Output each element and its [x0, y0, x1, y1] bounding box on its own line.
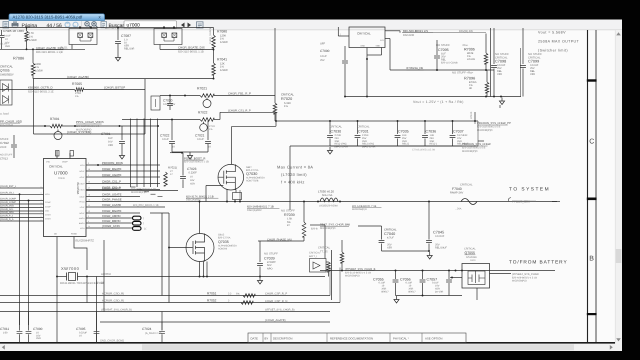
svg-text:ACIN: ACIN	[80, 227, 85, 230]
svg-text:18: 18	[88, 168, 90, 171]
svg-text:BGAT: BGAT	[79, 170, 85, 173]
svg-text:C7023: C7023	[187, 167, 197, 171]
svg-text:14: 14	[88, 225, 90, 228]
svg-text:C7099: C7099	[528, 60, 539, 64]
svg-text:0.1UF: 0.1UF	[320, 55, 327, 58]
svg-text:C7098: C7098	[495, 60, 506, 64]
svg-text:AMON: AMON	[79, 217, 85, 220]
svg-text:UFF: UFF	[320, 43, 326, 46]
svg-text:C7001: C7001	[101, 132, 111, 136]
svg-text:F7040: F7040	[452, 187, 462, 191]
svg-text:C7095: C7095	[438, 48, 449, 52]
svg-text:1: 1	[41, 185, 42, 188]
svg-text:(CHGR_P_2: (CHGR_P_2	[0, 215, 14, 218]
svg-text:820-3115-B0021 1 1B: 820-3115-B0021 1 1B	[184, 161, 209, 164]
svg-text:CRITICAL: CRITICAL	[460, 184, 473, 187]
svg-text:MICROB(P)D: MICROB(P)D	[462, 150, 478, 153]
svg-text:2508A MAX OUTPUT: 2508A MAX OUTPUT	[538, 40, 580, 44]
svg-text:C7011: C7011	[0, 327, 9, 331]
svg-text:(CHGR_D_A: (CHGR_D_A	[0, 218, 14, 221]
svg-text:50A 2.5A: 50A 2.5A	[322, 194, 333, 197]
svg-text:ISL6259IHRTZ: ISL6259IHRTZ	[75, 239, 94, 243]
svg-text:C7039: C7039	[264, 256, 275, 260]
svg-text:25V: 25V	[320, 59, 325, 62]
svg-text:Q7030: Q7030	[246, 172, 257, 176]
svg-text:Página: Página	[22, 23, 38, 29]
svg-text:TO/FROM BATTERY: TO/FROM BATTERY	[509, 260, 568, 266]
svg-text:a. load: a. load	[0, 112, 9, 116]
svg-text:C7012: C7012	[0, 141, 9, 145]
svg-text:A1278 820-3115 3115-B951-4059.: A1278 820-3115 3115-B951-4059.pdf	[13, 15, 84, 20]
svg-text:C7000: C7000	[33, 327, 43, 331]
svg-text:1: 1	[41, 205, 42, 208]
svg-text:1: 1	[41, 208, 42, 211]
svg-text:(CHGR_1B_L: (CHGR_1B_L	[0, 191, 15, 194]
svg-text:ACIN: ACIN	[45, 193, 50, 196]
svg-text:CHGR_CSP_R_P: CHGR_CSP_R_P	[265, 293, 287, 296]
svg-text:C7030: C7030	[331, 130, 342, 134]
svg-text:CHGR_BMON: CHGR_BMON	[102, 219, 121, 223]
svg-text:(CHGR_COMP: (CHGR_COMP	[0, 198, 16, 201]
svg-text:GND: GND	[361, 45, 366, 48]
svg-text:(CHGR_AGATE): (CHGR_AGATE)	[67, 75, 89, 79]
svg-text:15: 15	[88, 181, 90, 184]
svg-text:TT_25: TT_25	[320, 251, 328, 254]
svg-text:C7021: C7021	[195, 134, 205, 138]
svg-text:(CHGR_RST_L: (CHGR_RST_L	[0, 185, 17, 188]
svg-text:HCRGR_CSO_R): HCRGR_CSO_R)	[102, 300, 124, 303]
svg-text:C7090: C7090	[320, 49, 330, 53]
svg-text:C: C	[589, 139, 594, 146]
svg-text:C7040: C7040	[384, 232, 395, 236]
svg-text:R7051: R7051	[207, 292, 217, 296]
svg-text:17: 17	[88, 187, 90, 190]
svg-text:16: 16	[88, 194, 90, 197]
svg-text:B0017: B0017	[409, 290, 417, 293]
svg-text:Vout = 1.25V * (1 + Ra / Rb): Vout = 1.25V * (1 + Ra / Rb)	[413, 100, 464, 104]
svg-text:1 1.10: 1 1.10	[0, 43, 7, 46]
svg-text:820-115-CDNB: 820-115-CDNB	[441, 61, 458, 64]
svg-text:C7031: C7031	[358, 130, 369, 134]
svg-text:CHGR: CHGR	[45, 217, 51, 220]
svg-text:MICROB(P)D: MICROB(P)D	[131, 191, 147, 194]
svg-text:C7024: C7024	[142, 327, 152, 331]
svg-text:U7000: U7000	[54, 171, 68, 176]
svg-text:1%: 1%	[284, 105, 288, 108]
svg-text:820_PD2_B0021-1 1B: 820_PD2_B0021-1 1B	[133, 204, 159, 207]
svg-text:MICROB(P)D: MICROB(P)D	[320, 227, 336, 230]
svg-text:NO STUFF: NO STUFF	[0, 154, 13, 157]
svg-text:R7021: R7021	[197, 87, 207, 91]
svg-text:4: 4	[88, 220, 89, 223]
svg-text:1: 1	[41, 218, 42, 221]
svg-text:X5R: X5R	[530, 73, 535, 76]
svg-text:UGAT: UGAT	[79, 195, 85, 198]
svg-text:REL/10UF: REL/10UF	[435, 247, 447, 250]
svg-text:44 / 56: 44 / 56	[47, 23, 63, 29]
svg-text:12: 12	[88, 210, 90, 213]
svg-text:(A_RG10 2.2K: (A_RG10 2.2K	[145, 332, 162, 335]
svg-text:CHGR_UGATE: CHGR_UGATE	[102, 193, 122, 197]
svg-text:CRITICAL: CRITICAL	[318, 247, 331, 250]
svg-text:(CHGR_SCL: (CHGR_SCL	[0, 208, 14, 211]
svg-text:DESCRIPTION: DESCRIPTION	[273, 336, 292, 340]
svg-text:) (: ) (	[144, 228, 147, 231]
svg-text:1/16W: 1/16W	[220, 69, 228, 72]
svg-text:MICROB(P)D: MICROB(P)D	[345, 275, 360, 278]
svg-text:(Switcher limit): (Switcher limit)	[538, 49, 568, 53]
svg-text:R7052: R7052	[207, 299, 217, 303]
svg-text:2: 2	[88, 215, 89, 218]
svg-text:(CHGR_AGATE): (CHGR_AGATE)	[265, 319, 286, 322]
svg-text:820-B-2B021-7000-B711/22 B11 C: 820-B-2B021-7000-B711/22 B11 C2B	[60, 282, 104, 285]
svg-text:CS1N: CS1N	[79, 188, 85, 191]
svg-text:BY: BY	[265, 336, 269, 340]
svg-text:SI4835BDY: SI4835BDY	[0, 74, 14, 77]
svg-text:U7100: U7100	[470, 111, 473, 119]
svg-text:GND_CHGR_BGND: GND_CHGR_BGND	[100, 339, 124, 342]
svg-text:HCRGR_CSO_R): HCRGR_CSO_R)	[102, 293, 124, 296]
svg-text:REFERENCE DOCUMENTATION: REFERENCE DOCUMENTATION	[330, 336, 373, 340]
svg-text:C7087: C7087	[121, 34, 131, 38]
svg-text:...20A: ...20A	[455, 208, 462, 211]
svg-text:C7013: C7013	[0, 158, 8, 161]
svg-text:X5R: X5R	[108, 144, 113, 147]
svg-text:BGAT: BGAT	[79, 212, 85, 215]
svg-text:MICROB(P)D: MICROB(P)D	[477, 129, 493, 132]
svg-text:BATT_I: BATT_I	[309, 255, 317, 258]
svg-text:0.1010F: 0.1010F	[435, 235, 445, 238]
svg-text:X5R: X5R	[36, 337, 41, 340]
svg-text:MICROB(P)D: MICROB(P)D	[352, 208, 367, 211]
svg-text:1: 1	[41, 198, 42, 201]
svg-text:NPO: NPO	[267, 267, 273, 270]
svg-text:LPBYBAT_SYS_CHGR_B): LPBYBAT_SYS_CHGR_B)	[101, 309, 132, 312]
svg-text:C7085 1R +4RV: C7085 1R +4RV	[3, 29, 24, 33]
svg-text:DSC/A08: DSC/A08	[403, 34, 415, 37]
svg-text:(CHGR_SDA: (CHGR_SDA	[0, 211, 14, 214]
svg-text:1: 1	[88, 174, 89, 177]
svg-text:): )	[143, 217, 144, 220]
svg-text:CRITICAL: CRITICAL	[281, 93, 294, 97]
svg-text:(PPVBAT_SYS_CHGR_B: (PPVBAT_SYS_CHGR_B	[345, 268, 376, 271]
svg-text:NO STUFF: NO STUFF	[264, 252, 278, 255]
svg-text:PPVL_CHGR_VDDS: PPVL_CHGR_VDDS	[76, 120, 104, 124]
svg-text:CHGR_FB1_R_P: CHGR_FB1_R_P	[228, 92, 251, 96]
svg-text:CHGR_LGATE: CHGR_LGATE	[102, 203, 121, 207]
svg-text:AGAT: AGAT	[79, 176, 85, 179]
svg-text:C7037: C7037	[453, 130, 464, 134]
svg-text:VDD: VDD	[45, 209, 50, 212]
svg-text:C7045: C7045	[433, 230, 444, 234]
svg-text:CS1P: CS1P	[80, 182, 86, 185]
svg-text:Q7035: Q7035	[218, 240, 229, 244]
svg-text:(PPVBAT_SYS_CHGR: (PPVBAT_SYS_CHGR	[512, 273, 539, 276]
svg-text:22UF: 22UF	[0, 146, 7, 149]
svg-text:COMP: COMP	[45, 201, 51, 204]
svg-text:ASE OPTION: ASE OPTION	[425, 336, 442, 340]
svg-text:CHGR_VGATE: CHGR_VGATE	[209, 27, 212, 44]
svg-text:DATE: DATE	[251, 336, 258, 340]
svg-text:REL[-]: REL[-]	[402, 143, 409, 146]
svg-text:0.220F: 0.220F	[189, 172, 198, 175]
svg-text:820-A09-B0021 L/S: 820-A09-B0021 L/S	[403, 29, 428, 33]
svg-text:TO SYSTEM: TO SYSTEM	[509, 186, 550, 192]
svg-text:X5R: X5R	[497, 73, 502, 76]
svg-text:(CHGR_VDD: (CHGR_VDD	[0, 205, 14, 208]
svg-text:PHAS: PHAS	[79, 200, 85, 203]
svg-text:1: 1	[41, 215, 42, 218]
svg-text:CRITICAL: CRITICAL	[357, 31, 371, 35]
svg-text:820-3115-B0021 2 1E: 820-3115-B0021 2 1E	[28, 91, 54, 94]
svg-text:C7005: C7005	[76, 327, 86, 331]
svg-text:(CHGR_BSTOP: (CHGR_BSTOP	[104, 86, 125, 90]
svg-text:Max Current = 8A: Max Current = 8A	[277, 165, 313, 170]
svg-text:R7020: R7020	[281, 97, 292, 101]
svg-text:0.1UF: 0.1UF	[162, 138, 169, 141]
svg-text:0.1UF: 0.1UF	[197, 138, 204, 141]
svg-text:AON3-B: AON3-B	[218, 248, 227, 251]
svg-text:E70523A_FB: E70523A_FB	[407, 67, 424, 70]
svg-text:820-3115-B: 820-3115-B	[0, 124, 13, 127]
svg-text:(CHGR_COMP: (CHGR_COMP	[0, 201, 16, 204]
svg-text:(rn-10R: (rn-10R	[435, 290, 444, 293]
svg-text:REL[-]: REL[-]	[430, 143, 437, 146]
svg-text:CHGR_BGATE: CHGR_BGATE	[102, 167, 121, 171]
svg-text:A30PD2: A30PD2	[101, 273, 111, 276]
svg-text:B0017: B0017	[382, 290, 390, 293]
svg-text:CHGR_AGATE: CHGR_AGATE	[102, 173, 121, 177]
svg-text:BMON: BMON	[79, 222, 85, 225]
svg-text:): )	[143, 222, 144, 225]
svg-text:KBC868_OCTR_D: KBC868_OCTR_D	[28, 86, 53, 90]
svg-text:NO STUFF: NO STUFF	[281, 209, 295, 212]
svg-text:CRITICAL: CRITICAL	[357, 126, 370, 129]
svg-text:R7022: R7022	[198, 111, 208, 115]
svg-text:(-30: (-30	[3, 331, 8, 334]
svg-text:(CHGR_CS1_R_P: (CHGR_CS1_R_P	[228, 110, 251, 113]
svg-text:R7080: R7080	[217, 30, 227, 34]
svg-text:X5R: X5R	[387, 247, 392, 250]
svg-text:R7001: R7001	[50, 117, 60, 121]
svg-text:1: 1	[41, 201, 42, 204]
svg-text:R7021(: R7021(	[168, 166, 177, 170]
svg-text:PHYSICAL *: PHYSICAL *	[393, 336, 410, 340]
svg-text:1/16W: 1/16W	[35, 70, 43, 73]
svg-text:820-3115-B0021 1 1B: 820-3115-B0021 1 1B	[178, 51, 204, 54]
svg-text:Q7005: Q7005	[0, 69, 10, 73]
svg-text:CRITICAL: CRITICAL	[309, 252, 321, 255]
svg-text:1: 1	[41, 192, 42, 195]
svg-text:(R_D1: (R_D1	[60, 47, 68, 50]
svg-text:1%: 1%	[29, 36, 33, 39]
svg-text:R7039: R7039	[284, 213, 295, 217]
svg-text:ACIN: ACIN	[80, 164, 85, 167]
svg-text:CRITICAL: CRITICAL	[464, 247, 476, 250]
svg-text:CHGR_AMON: CHGR_AMON	[102, 214, 121, 218]
svg-text:RAMP-24V: RAMP-24V	[450, 192, 463, 195]
svg-text:16V: 16V	[190, 179, 195, 182]
svg-text:GATE: GATE	[470, 259, 476, 262]
svg-text:CHGR_PHASE: CHGR_PHASE	[102, 198, 122, 202]
svg-text:N?A033N: N?A033N	[466, 256, 477, 259]
svg-text:(L7030 limit): (L7030 limit)	[281, 172, 307, 177]
svg-text:XW7000: XW7000	[61, 266, 80, 271]
svg-text:4.7UF: 4.7UF	[387, 237, 394, 240]
svg-text:R7041: R7041	[217, 58, 227, 62]
svg-text:VDDP: VDDP	[62, 161, 68, 164]
svg-text:(CHGR_ACIN: (CHGR_ACIN	[102, 224, 120, 228]
svg-text:AON7702B: AON7702B	[246, 180, 259, 183]
svg-text:CRITICAL: CRITICAL	[330, 126, 343, 129]
svg-text:11: 11	[88, 204, 90, 207]
svg-text:CHGR_CS1_P: CHGR_CS1_P	[102, 179, 121, 183]
svg-text:PRCHON_DCIN: PRCHON_DCIN	[102, 161, 123, 165]
svg-text:MICROB(P)D: MICROB(P)D	[76, 128, 92, 131]
svg-text:COMP: COMP	[45, 205, 51, 208]
svg-text:NO STUFF: NO STUFF	[436, 44, 450, 47]
svg-text:R7086: R7086	[13, 57, 24, 61]
svg-text:PP_CHGR_VDD: PP_CHGR_VDD	[0, 119, 22, 123]
svg-text:LGAT: LGAT	[80, 206, 86, 209]
svg-text:2: 2	[88, 162, 89, 165]
svg-text:1/16W: 1/16W	[220, 41, 228, 44]
svg-text:X5R: X5R	[190, 182, 195, 185]
svg-text:3K: 3K	[469, 87, 472, 90]
svg-text:TDFN: TDFN	[58, 177, 65, 180]
svg-text:DISC(A)/B02: DISC(A)/B02	[247, 209, 262, 212]
svg-text:CHGR_BGATE_DIS: CHGR_BGATE_DIS	[178, 46, 205, 50]
svg-text:CRITICAL: CRITICAL	[384, 228, 397, 231]
svg-text:1/16W: 1/16W	[29, 39, 37, 42]
svg-text:PGND: PGND	[71, 233, 77, 236]
svg-text:CHGR_BGATE: CHGR_BGATE	[102, 209, 121, 213]
svg-text:CHGR_BOOT: CHGR_BOOT	[102, 187, 120, 191]
svg-text:B: B	[589, 256, 594, 263]
svg-text:f = 400 kHz: f = 400 kHz	[281, 180, 305, 185]
svg-text:MICROB(P)D: MICROB(P)D	[512, 280, 527, 283]
svg-text:R7005: R7005	[72, 82, 82, 86]
svg-text:DSV(B)-DN: DSV(B)-DN	[459, 30, 473, 33]
svg-text:CRITICAL: CRITICAL	[49, 165, 63, 169]
svg-text:Vout = 5.568V: Vout = 5.568V	[538, 31, 566, 35]
svg-text:13: 13	[88, 199, 90, 202]
svg-text:820-B: 820-B	[311, 228, 318, 231]
svg-text:R7096: R7096	[464, 76, 475, 80]
svg-text:1: 1	[41, 211, 42, 214]
svg-text:SNB: SNB	[376, 45, 381, 48]
svg-text:C7040_B0021112.0B: C7040_B0021112.0B	[412, 149, 435, 152]
svg-text:REL/10R: REL/10R	[124, 48, 134, 51]
svg-text:C7022: C7022	[160, 134, 170, 138]
svg-text:PPBUS_G3H: PPBUS_G3H	[512, 199, 530, 203]
svg-text:OFFSET_SYS_CHGR_B): OFFSET_SYS_CHGR_B)	[265, 309, 295, 312]
svg-text:Q7055: Q7055	[465, 251, 476, 255]
svg-text:820-3115-B0021-1 1(B: 820-3115-B0021-1 1(B	[36, 51, 63, 54]
svg-text:R7095: R7095	[464, 47, 475, 51]
svg-text:LR332520-R20M: LR332520-R20M	[319, 205, 338, 208]
svg-text:C7035: C7035	[398, 130, 409, 134]
svg-text:CHGR: CHGR	[45, 213, 51, 216]
svg-text:CHGR_CSP_R_N: CHGR_CSP_R_N	[265, 300, 287, 303]
svg-text:C7036: C7036	[426, 130, 437, 134]
svg-text:L/1GW: L/1GW	[467, 58, 476, 61]
svg-text:NO STUFF <Ra>: NO STUFF <Ra>	[452, 72, 474, 75]
